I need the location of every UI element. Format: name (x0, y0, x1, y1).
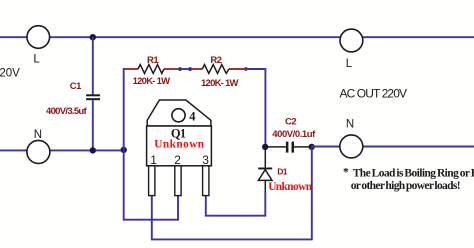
diode D1 lower pin (264, 180, 266, 192)
svg-text:220V: 220V (0, 68, 20, 80)
svg-text:400V/0.1uf: 400V/0.1uf (272, 129, 316, 140)
wire: R2 to diode column (246, 68, 265, 70)
terminal N1 input neutral (27, 140, 50, 163)
capacitor C2 plates (286, 142, 294, 153)
wire: diode column lower (264, 192, 266, 216)
junction: top rail / C1 branch (90, 34, 96, 40)
svg-text:2: 2 (174, 153, 181, 167)
svg-text:120K- 1W: 120K- 1W (201, 78, 239, 89)
wire: left loop bottom to pin 2 (123, 219, 178, 221)
svg-text:Unknown: Unknown (268, 181, 313, 193)
resistor R1 zigzag (138, 65, 164, 74)
wire: C1 branch upper (92, 37, 94, 94)
wire: pin 1 drop (151, 196, 153, 240)
svg-text:D1: D1 (277, 166, 287, 176)
diode D1 triangle (258, 170, 272, 181)
transistor Q1 body (147, 126, 212, 166)
wire: R1 to R2 connector (179, 68, 191, 70)
svg-text:N: N (34, 129, 42, 141)
svg-text:C2: C2 (285, 117, 296, 128)
svg-text:R1: R1 (147, 55, 159, 66)
wire: pin 3 drop (205, 196, 207, 216)
resistor R1 left lead (124, 68, 138, 70)
transistor Q1 leg 3 (203, 166, 209, 196)
svg-text:1: 1 (150, 153, 157, 167)
pin marker R1 right (179, 67, 182, 71)
wire: top live rail (0, 36, 474, 38)
capacitor C2 left lead (266, 146, 286, 148)
wire: output neutral rail (312, 146, 474, 148)
terminal L1 input live (27, 26, 50, 49)
diode D1 upper pin (264, 150, 266, 168)
svg-text:400V/3.5uf: 400V/3.5uf (46, 106, 88, 117)
wire: pin 2 drop (177, 196, 179, 221)
wire: bottom return rail (151, 238, 312, 240)
transistor Q1 tab (147, 100, 211, 126)
svg-text:or other high power loads!: or other high power loads! (351, 180, 460, 192)
resistor R2 left lead (191, 68, 202, 70)
svg-text:AC OUT 220V: AC OUT 220V (340, 87, 407, 101)
svg-text:*: * (343, 167, 349, 179)
transistor Q1 mounting hole (172, 109, 185, 122)
terminal N2 output neutral (340, 135, 363, 158)
wire: left loop vertical (123, 68, 125, 220)
terminal L2 output live (340, 29, 363, 52)
transistor Q1 leg 1 (149, 166, 155, 196)
capacitor C2 right lead (294, 146, 312, 148)
resistor R2 zigzag (202, 65, 229, 74)
svg-text:Unknown: Unknown (154, 139, 205, 151)
svg-text:R2: R2 (210, 55, 221, 66)
junction: C2 left / D1 (262, 144, 268, 150)
svg-text:The Load is Boiling Ring or El: The Load is Boiling Ring or Electric (353, 167, 474, 179)
svg-text:L: L (33, 54, 40, 66)
resistor R1 right lead (164, 68, 179, 70)
wire: diode to pin 3 (205, 215, 266, 217)
wire: C1 branch lower (92, 100, 94, 150)
junction: C2 right / output column (309, 144, 315, 150)
pin marker R2 right (245, 67, 248, 71)
svg-text:4: 4 (189, 109, 196, 123)
svg-text:120K- 1W: 120K- 1W (133, 76, 171, 87)
svg-text:C1: C1 (70, 81, 82, 92)
svg-text:3: 3 (202, 153, 209, 167)
junction: neutral rail / C1 (90, 147, 96, 153)
svg-text:N: N (346, 118, 354, 130)
svg-text:L: L (346, 58, 353, 70)
capacitor C1 plates (86, 94, 100, 100)
wire: output column riser (311, 147, 313, 240)
wire: diode column upper (264, 68, 266, 147)
resistor R2 right lead (229, 68, 246, 70)
diode D1 cathode bar (258, 168, 272, 170)
junction: neutral rail / left loop (121, 147, 127, 153)
transistor Q1 leg 2 (175, 166, 181, 196)
wire: bottom-left neutral rail (0, 149, 124, 151)
pin marker R2 left (189, 67, 192, 71)
